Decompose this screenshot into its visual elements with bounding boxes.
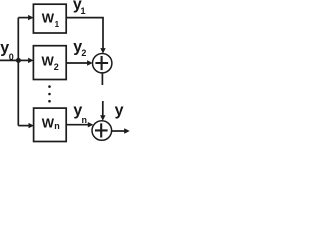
svg-text:1: 1 [81,6,86,16]
ellipsis dots between W2 and Wn [48,85,51,102]
arrowhead into W2 [28,58,33,63]
adder S1 [93,54,112,73]
wire W2 output to adder S1 [66,62,88,64]
arrowhead into Wn [29,123,35,128]
svg-text:2: 2 [54,62,59,72]
label y2 [73,39,86,59]
arrowhead into adder S2 top [100,115,105,121]
svg-text:n: n [82,115,88,125]
svg-text:1: 1 [55,20,60,29]
arrowhead into W1 [28,15,33,20]
label yn [73,102,87,125]
adder S2 [92,121,112,141]
arrowhead output y [124,128,130,133]
wire Wn output to adder S2 [66,124,89,126]
wire adder S1 output stub down [101,73,103,85]
label y0 [0,40,14,63]
wire input y0 horizontal [0,59,18,61]
svg-text:2: 2 [81,48,86,58]
svg-text:W: W [42,115,55,130]
svg-text:W: W [42,11,55,26]
wire trunk vertical [17,18,19,126]
block W2 [33,46,66,80]
wire to W1 [18,17,29,19]
label y1 [73,0,86,16]
wire adder S2 output [112,130,125,132]
svg-text:n: n [54,121,60,131]
svg-text:0: 0 [9,52,14,62]
arrowhead into adder S2 left [88,122,94,127]
block Wn [34,108,67,141]
svg-text:y: y [115,102,124,119]
arrowhead into adder S1 left [87,60,93,65]
wire W1 output to elbow and down [66,18,103,49]
junction node y0 [16,58,21,63]
svg-text:W: W [42,53,55,68]
block W1 [33,4,66,33]
wire to W2 [18,59,29,61]
arrowhead into adder S1 top [100,48,105,54]
wire resume into adder S2 [102,101,104,116]
wire to Wn [18,125,29,127]
